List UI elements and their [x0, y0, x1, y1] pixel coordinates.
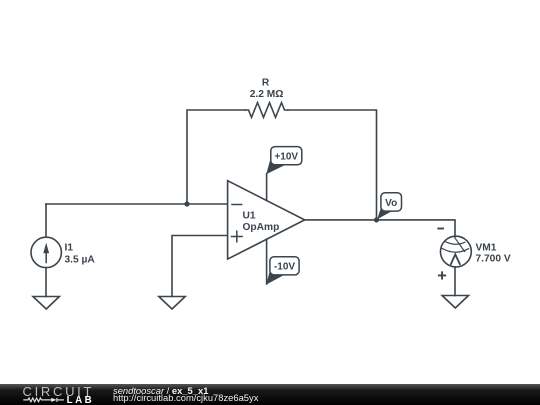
net flag Vo: [377, 193, 401, 220]
svg-text:7.700 V: 7.700 V: [476, 253, 511, 264]
wire negative supply: [266, 239, 268, 284]
svg-text:2.2 MΩ: 2.2 MΩ: [250, 89, 284, 100]
net flag +10V: [266, 147, 302, 175]
ground under voltmeter: [442, 296, 468, 309]
wire op-amp non-inverting input to ground: [172, 236, 227, 297]
svg-text:OpAmp: OpAmp: [243, 222, 280, 233]
ground under non-inverting input: [159, 297, 185, 310]
wire from I1 to op-amp inverting input: [46, 203, 227, 205]
net flag -10V: [266, 257, 299, 285]
svg-text:R: R: [262, 77, 270, 88]
svg-text:3.5 µA: 3.5 µA: [65, 255, 96, 266]
wire I1 top: [45, 204, 47, 237]
wire positive supply: [266, 174, 268, 201]
resistor R: [245, 77, 288, 117]
op-amp U1: [228, 181, 305, 259]
node junction dot at inverting input: [184, 201, 189, 206]
footer title text: [113, 385, 208, 396]
svg-text:U1: U1: [243, 211, 256, 222]
node junction dot at output: [374, 217, 379, 222]
CircuitLab logo squiggle (resistor + diode): [0, 383, 110, 405]
wire feedback left (vertical + top segment to resistor): [187, 110, 245, 203]
svg-text:Vo: Vo: [385, 198, 397, 209]
footer bar: [0, 384, 540, 405]
ground under I1: [33, 297, 59, 310]
voltmeter VM1: [438, 229, 511, 279]
wire voltmeter bottom: [454, 267, 456, 296]
CircuitLab logo wordmark CIRCUIT: [23, 384, 95, 399]
svg-text:+10V: +10V: [274, 151, 298, 162]
svg-text:-10V: -10V: [274, 262, 295, 273]
wire I1 bottom: [45, 268, 47, 297]
footer url text: [113, 392, 258, 403]
CircuitLab logo wordmark LAB: [67, 395, 95, 405]
svg-text:VM1: VM1: [476, 243, 497, 254]
current source I1: [31, 237, 95, 267]
svg-text:I1: I1: [65, 243, 74, 254]
wire feedback right (top segment + vertical down to output): [288, 110, 377, 219]
wire op-amp output to voltmeter: [305, 220, 455, 237]
